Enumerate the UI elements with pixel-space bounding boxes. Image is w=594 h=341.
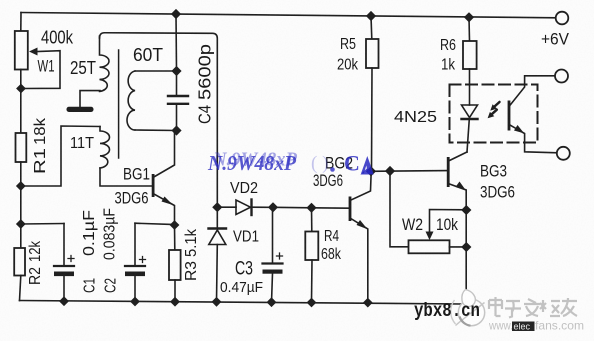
wire R1R2 to C1 node [20,186,22,224]
node C3 ground [267,297,277,307]
resistor R3 [174,225,176,250]
BG1 collector [153,131,175,178]
phototransistor of 4N25 [508,101,511,131]
terminal photo collector [555,70,568,83]
transistor BG3 [447,157,450,187]
winding 60T [127,71,135,130]
diode VD2 [217,206,236,208]
resistor R5 [370,16,373,39]
BG3 collector [450,152,468,161]
photo emitter arrow [514,125,524,133]
wire collector line to BG3 base [371,170,448,173]
transistor BG2 [349,197,352,222]
BG1 emitter arrow [162,197,174,206]
node W1/R1 junction [16,84,26,94]
BG3 emitter [450,184,467,302]
node top rail to C4 [171,9,181,19]
node C3 tap [268,202,278,212]
wire R1 bottom [20,162,22,186]
wire left column top [20,13,22,32]
node W2 right junction [461,242,471,252]
node BG2 emitter ground [363,298,373,308]
potentiometer W2 [409,240,450,253]
wire R1 top [20,89,22,134]
node 60T/C4 top [171,66,181,76]
wire to R4 node [273,206,312,209]
node R1/R2/11T junction [16,181,26,191]
wire W2 right terminal [450,246,467,248]
node 60T/C4 bottom [171,125,181,135]
BG2 emitter [350,218,368,303]
diode VD1 [216,207,218,228]
capacitor C2 [134,223,136,265]
capacitor C4 [176,71,178,95]
node R4 tap [306,203,316,213]
node R6 rail [464,12,474,22]
node C1 tap junction [16,219,26,229]
terminal photo emitter [557,147,570,160]
transistor BG1 [152,174,155,197]
node R4 ground [307,298,317,308]
winding 25T [100,36,110,91]
BG2 collector [350,171,371,200]
wire W1 wiper loop [23,51,60,89]
wire W2 wiper [430,210,467,233]
watermark elecfans logo [489,297,577,318]
wire junction to 11T top [21,126,100,186]
node detector VD1/VD2 [212,202,222,212]
node W2 left tap [385,166,395,176]
node BG2 collector / R5 [366,166,376,176]
node VD1 ground [212,297,222,307]
watermark blue text [207,149,374,176]
wire bottom ground rail [20,301,462,305]
LED of 4N25 [462,105,478,118]
BG3 emitter arrow [456,182,466,191]
capacitor C3 [272,207,274,263]
wire W2 left tap down [390,171,409,247]
wire W1 bottom [20,70,22,89]
C3 plus sign [277,253,283,259]
wire 60T top [135,70,177,72]
BG2 emitter arrow [357,220,368,229]
capacitor C1 [63,224,65,266]
wire rail to 60T/C4 [175,14,178,71]
transformer core [118,50,120,158]
resistor R1 [16,133,27,162]
wire 25T top to detector [100,33,218,207]
light arrows [492,102,500,114]
wire C2 to BG1 emitter [135,223,175,224]
resistor R4 [311,208,313,232]
wire to BG2 base [312,207,350,209]
wire top +6V rail [21,13,557,18]
node BG1 emitter junction [170,220,180,230]
W1 wiper arrow [29,48,38,56]
node R5 rail [366,11,376,21]
wire 60T bottom [135,129,177,132]
node C2 ground [130,297,140,307]
node C1 ground [59,296,69,306]
BG1 emitter [153,194,175,226]
W2 wiper arrow [426,232,434,241]
wire 25T bottom to ground [80,91,100,107]
watermark swirl logo [451,290,485,326]
potentiometer W1 [15,31,28,70]
C1 plus sign [68,256,74,262]
node R3 ground [170,297,180,307]
C2 plus sign [140,257,146,263]
ground bar [67,107,94,112]
resistor R6 [468,17,471,41]
watermark www.elecfans.com [488,319,584,333]
terminal +6V [556,12,569,25]
wire 11T bottom to BG1 base [100,168,152,186]
wire R2 bottom [20,276,21,301]
node W2 wiper junction [461,205,471,215]
watermark blue blob [361,156,374,174]
wire node to C1 [21,223,64,226]
optocoupler 4N25 dashed box [450,85,538,143]
winding 11T [100,127,110,169]
resistor R2 [14,248,25,276]
wire R2 top [20,224,22,248]
